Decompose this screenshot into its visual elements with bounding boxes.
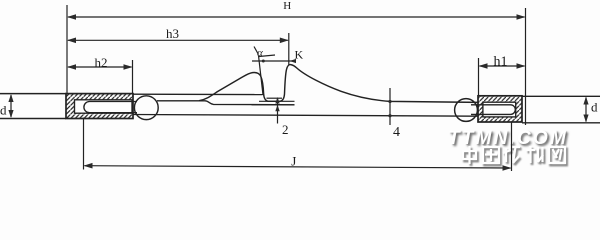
char fang [506, 150, 509, 164]
dimension d right arrow [583, 97, 588, 123]
dimension J [84, 163, 512, 171]
svg-text:H: H [283, 0, 291, 12]
left main extension line [66, 5, 68, 94]
J left extension line [83, 118, 85, 170]
eye hump outline [199, 65, 478, 103]
char guo [485, 149, 501, 165]
dimension h1 [479, 63, 526, 69]
left end loop hatched section [66, 94, 133, 119]
alpha diagonal tick [254, 47, 259, 55]
right main extension line [525, 8, 527, 125]
pointer 2 leader line [275, 97, 279, 124]
svg-text:4: 4 [393, 125, 400, 140]
h3 extension line [288, 33, 290, 65]
svg-text:K: K [295, 48, 304, 62]
under-eye bottom line [252, 104, 295, 106]
right rod circle [455, 99, 478, 122]
under-eye top line [259, 100, 295, 102]
svg-text:α: α [257, 47, 263, 59]
alpha leader stroke [259, 55, 275, 57]
left end loop outer rect [66, 94, 133, 119]
left rail bottom line [0, 118, 66, 120]
svg-text:J: J [291, 154, 296, 169]
dimension H [67, 14, 526, 20]
left rail top line [0, 93, 66, 95]
body top edge (loop section) [133, 93, 263, 95]
char zhong [465, 153, 478, 161]
h1 extension line [478, 58, 480, 96]
char fang [505, 148, 507, 162]
char wang [549, 147, 565, 163]
char ji [526, 149, 535, 151]
char zhong [463, 151, 476, 159]
svg-text:d: d [0, 103, 7, 118]
svg-text:h2: h2 [95, 55, 108, 70]
pointer 4 tick line [388, 88, 391, 125]
svg-text:h1: h1 [494, 54, 508, 69]
left rod circle [134, 96, 158, 120]
right end loop outer rect [478, 96, 522, 122]
svg-text:h3: h3 [166, 26, 179, 41]
body middle edge with dip under eye [157, 101, 295, 105]
right rail bottom line [522, 122, 600, 124]
svg-text:d: d [591, 100, 598, 115]
svg-text:2: 2 [282, 122, 289, 137]
char guo [483, 147, 499, 163]
eye U inner bottom [267, 97, 283, 99]
char wang [551, 149, 567, 165]
body bottom edge [133, 115, 478, 117]
h2 extension line [132, 60, 134, 94]
char ji [528, 151, 537, 154]
J right extension line [511, 122, 513, 171]
K dimension line [252, 59, 296, 63]
dimension d left arrow [8, 94, 13, 118]
dimension h2 [67, 64, 133, 70]
right rail top line [522, 95, 600, 97]
watermark Chinese characters [459, 144, 579, 168]
right slot (rounded right end) [471, 105, 515, 115]
left end loop inner rect [75, 100, 133, 113]
watermark TTMN.COM [448, 128, 600, 150]
right end loop hatched section [478, 96, 522, 122]
alpha angle wall extension line [259, 56, 264, 96]
right end loop inner rect [483, 102, 516, 117]
left slot (rounded left end) [84, 102, 137, 113]
dimension h3 [67, 38, 289, 44]
